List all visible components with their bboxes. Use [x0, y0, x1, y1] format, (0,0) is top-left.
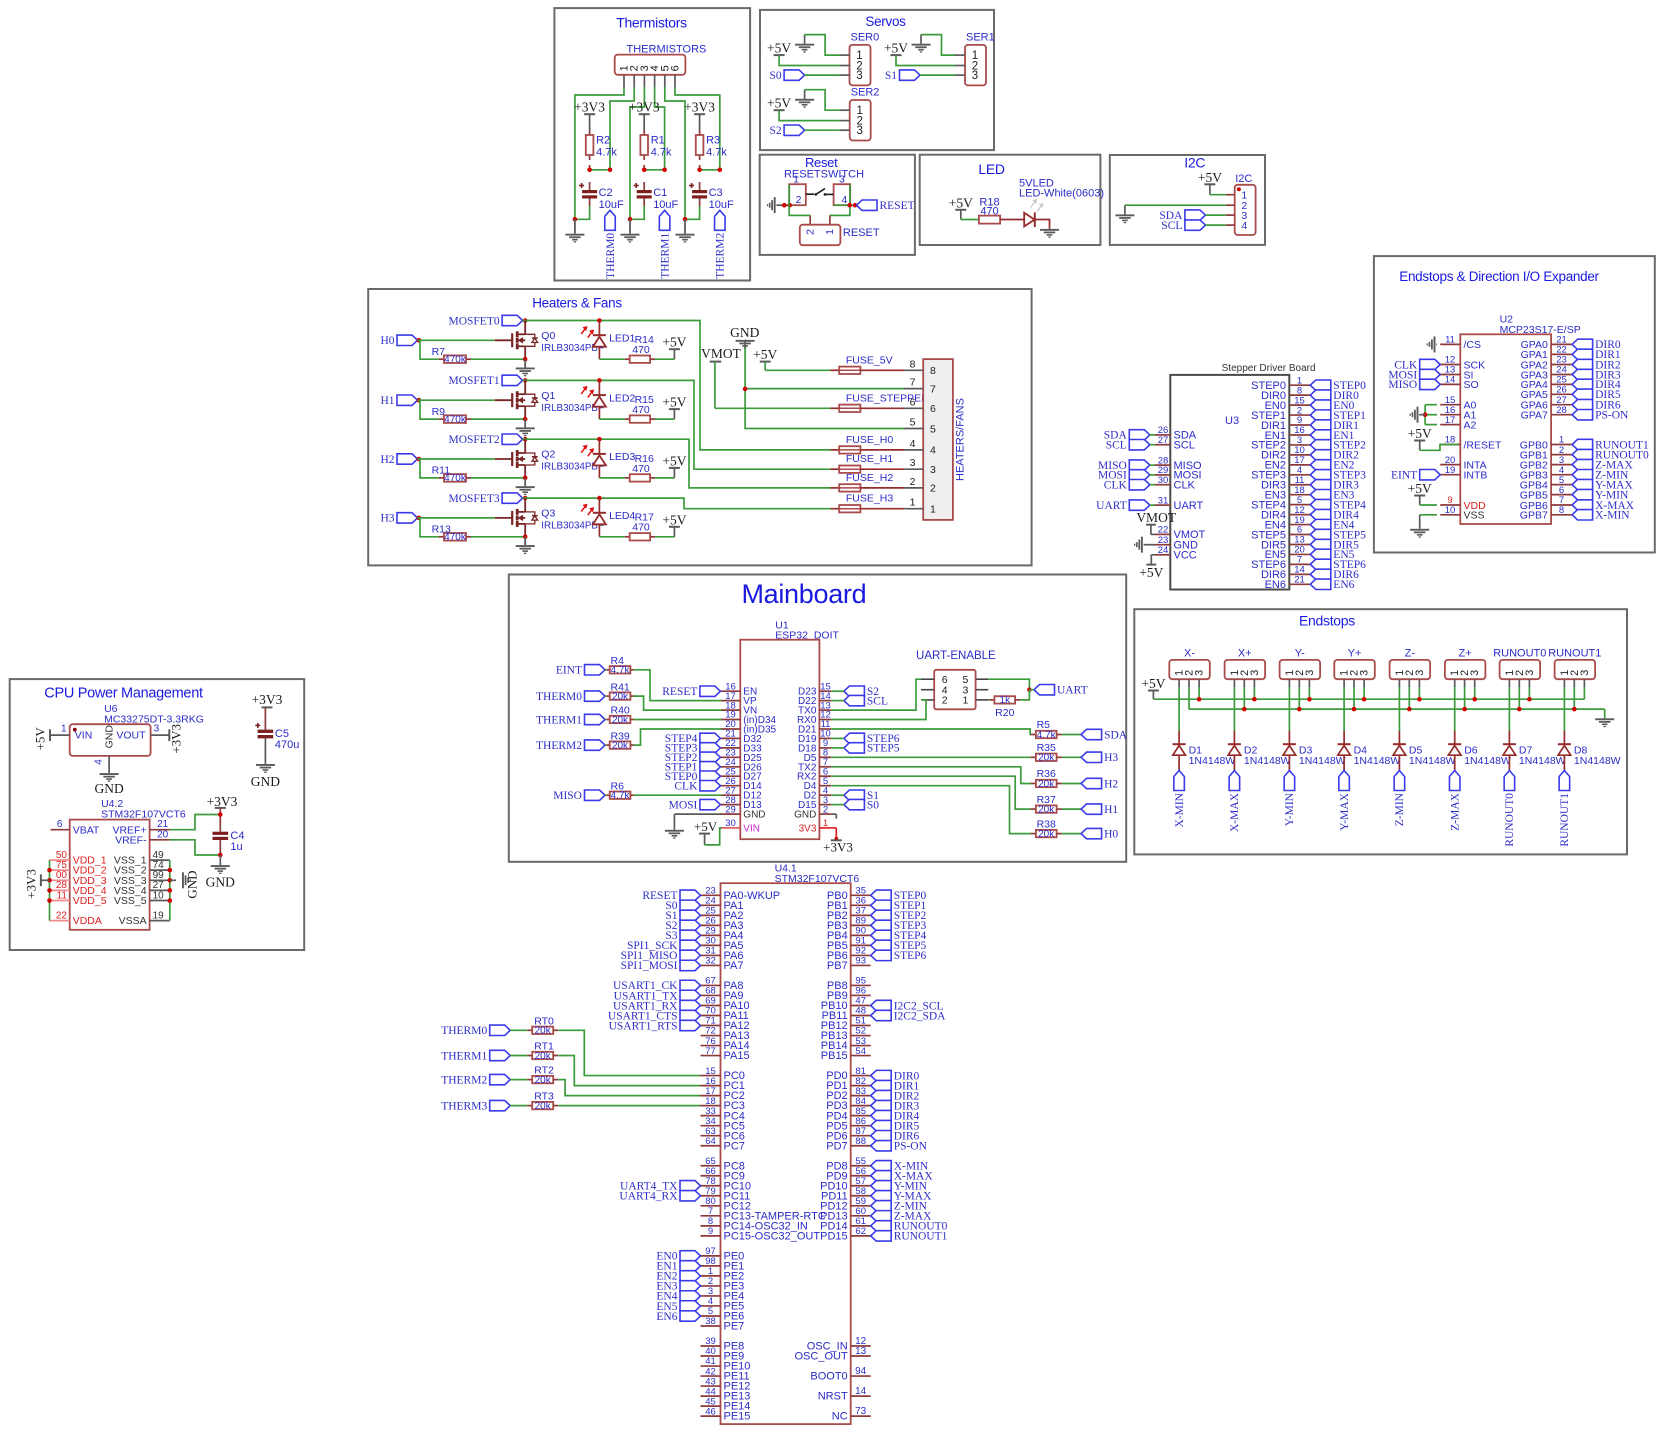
pin 4 D2 U1 — [804, 785, 832, 801]
svg-text:8: 8 — [930, 365, 936, 377]
power +5V VIN U1 — [694, 819, 718, 845]
svg-text:10: 10 — [153, 890, 165, 901]
hier label X-MAX endstop — [1229, 771, 1241, 832]
pin 79 PC11 U4.1 — [701, 1186, 751, 1202]
svg-text:1: 1 — [962, 695, 968, 707]
svg-text:14: 14 — [1445, 375, 1456, 386]
led LED1 — [581, 321, 635, 360]
hier label MOSFET1 — [448, 375, 522, 387]
junction H2 — [417, 457, 422, 462]
node mid group 2 — [642, 168, 667, 173]
svg-text:SCL: SCL — [867, 695, 888, 707]
ic U4.2 body — [70, 820, 150, 930]
svg-text:EINT: EINT — [556, 665, 582, 677]
junction VDD rail 870.1 — [47, 868, 52, 873]
hier label EN2 U3 — [1310, 460, 1354, 472]
hier label STEP3 U3 — [1310, 470, 1366, 482]
svg-text:3: 3 — [1579, 670, 1591, 676]
wire VREF+ to +3V3 — [170, 815, 221, 830]
connector THERMISTORS — [615, 55, 686, 87]
resistor R39 THERM2 — [536, 730, 634, 752]
fuse FUSE_5V — [831, 354, 905, 374]
svg-text:3: 3 — [1304, 670, 1316, 676]
wire THERM2 to RT2 — [510, 1079, 527, 1081]
svg-text:STEP5: STEP5 — [867, 743, 900, 755]
component UART-ENABLE — [921, 670, 988, 710]
connector HEATERS/FANS — [904, 358, 967, 520]
hier label X-MAX U2 — [1572, 500, 1635, 512]
svg-text:GND: GND — [743, 810, 765, 821]
svg-text:HEATERS/FANS: HEATERS/FANS — [955, 398, 967, 481]
svg-text:Thermistors: Thermistors — [616, 15, 687, 31]
wire X+ pin1 to diode — [1233, 687, 1235, 744]
connector Y+ — [1334, 647, 1375, 687]
junction VDD rail 900.5 — [47, 898, 52, 903]
pin 3 GPB2 U2 — [1520, 455, 1572, 472]
svg-text:Q3: Q3 — [541, 508, 555, 520]
svg-text:22: 22 — [56, 910, 68, 921]
connector X+ — [1225, 647, 1266, 687]
wire pin3 THERMISTORS — [630, 87, 644, 219]
wire S1 to pin3 — [920, 74, 955, 76]
hier label DIR1 U4.1 — [871, 1080, 920, 1092]
capacitor C2 — [579, 182, 624, 211]
svg-text:SCL: SCL — [1106, 439, 1127, 451]
resistor R15 — [599, 394, 655, 423]
svg-text:+5V: +5V — [694, 819, 718, 834]
pin 8 GPB7 U2 — [1520, 505, 1572, 522]
svg-text:+5V: +5V — [949, 195, 973, 210]
pin GND U6 — [94, 725, 116, 773]
hier label DIR5 U2 — [1572, 389, 1621, 401]
pin 17 PC2 U4.1 — [701, 1086, 745, 1102]
transistor Q3 — [495, 498, 604, 537]
hier label I2C2_SDA U4.1 — [871, 1010, 946, 1022]
resistor R37 H1 — [1031, 794, 1119, 816]
wire MOSFET1 net to fuse — [523, 380, 831, 469]
wire RUNOUT1 pin3 to 5V bus — [1583, 687, 1585, 699]
svg-text:STEP6: STEP6 — [894, 950, 927, 962]
diode D5 — [1393, 744, 1456, 770]
wire X+ pin3 to 5V bus — [1253, 687, 1255, 699]
pin 70 PA11 U4.1 — [701, 1006, 749, 1022]
svg-text:USART1_RTS: USART1_RTS — [609, 1020, 678, 1032]
svg-text:+5V: +5V — [1198, 170, 1222, 185]
wire +5V to pin2 SER2 — [779, 110, 840, 120]
resistor R35 H3 — [1031, 742, 1119, 764]
svg-text:RUNOUT1: RUNOUT1 — [1548, 647, 1601, 659]
svg-text:X+: X+ — [1238, 647, 1252, 659]
led LED4 — [581, 498, 635, 537]
pin 60 PD13 U4.1 — [820, 1206, 871, 1222]
pin 25 D27 U1 — [720, 766, 762, 782]
pin 96 PB9 U4.1 — [827, 986, 871, 1002]
pin 23 GND U3 — [1155, 535, 1198, 552]
wire right to reset pin1 — [830, 185, 850, 225]
junction source node 3 — [523, 535, 528, 540]
connector SER2 — [840, 87, 880, 141]
svg-text:PD7: PD7 — [826, 1140, 847, 1152]
pin 11 DIR3 U3 — [1261, 475, 1310, 492]
hier label S1 — [885, 70, 920, 82]
power +5V i2c — [1198, 170, 1222, 195]
svg-text:FUSE_H1: FUSE_H1 — [846, 453, 893, 465]
svg-text:CLK: CLK — [1174, 480, 1196, 492]
resistor RT1 — [527, 1041, 558, 1062]
wire X- pin2 to gnd bus — [1188, 687, 1190, 709]
svg-text:26: 26 — [1556, 385, 1567, 396]
pin 29 MOSI U3 — [1155, 465, 1202, 482]
pin 63 PC6 U4.1 — [701, 1126, 745, 1142]
pin 30 CLK U3 — [1155, 475, 1196, 492]
wire RUNOUT1 pin2 to gnd bus — [1573, 687, 1575, 709]
wire S2 to pin3 — [805, 129, 840, 131]
pin 13 TX0 U1 — [798, 700, 831, 716]
svg-text:4.7k: 4.7k — [1037, 730, 1057, 741]
pin 49 VSS_1 U4.2 — [114, 850, 170, 867]
svg-text:GPB7: GPB7 — [1520, 510, 1548, 522]
wire H1 to R pulldown — [420, 400, 439, 419]
junction source node 1 — [523, 417, 528, 422]
pin 9 DIR1 U3 — [1261, 415, 1310, 432]
wire Y+ pin2 to gnd bus — [1353, 687, 1355, 709]
pin 39 PE8 U4.1 — [701, 1336, 745, 1352]
wire R to source node 3 — [471, 536, 525, 538]
hier label THERM1 — [659, 210, 671, 278]
svg-text:RESET: RESET — [843, 227, 880, 239]
svg-text:H1: H1 — [1104, 804, 1118, 816]
pin 1 STEP0 U3 — [1251, 375, 1310, 392]
svg-text:+5V: +5V — [1139, 565, 1163, 580]
component RESET — [800, 225, 880, 246]
svg-text:20k: 20k — [1038, 753, 1055, 764]
svg-text:VDDA: VDDA — [73, 915, 102, 927]
pin 16 PC1 U4.1 — [701, 1076, 745, 1092]
power +3V3 thermistor group 1 — [574, 100, 605, 131]
pin 6 STEP5 U3 — [1251, 525, 1310, 542]
junction Y- pin3 bus1 — [1307, 697, 1312, 702]
wire VSS rail — [169, 860, 171, 921]
diode D3 — [1283, 744, 1346, 770]
pin 18 VN U1 — [720, 700, 757, 716]
connector X- — [1169, 647, 1210, 687]
svg-text:SER0: SER0 — [851, 31, 880, 43]
hier label RESET U4.1 — [642, 890, 700, 902]
svg-text:CLK: CLK — [674, 780, 698, 792]
capacitor C3 — [689, 182, 734, 211]
svg-text:INTB: INTB — [1464, 470, 1488, 482]
svg-text:THERM1: THERM1 — [536, 714, 582, 726]
wire RT1 to PC1 — [558, 1056, 700, 1086]
wire MISO U3 — [1150, 464, 1155, 466]
pin 3 PE4 U4.1 — [701, 1286, 745, 1302]
hier label S3 U4.1 — [665, 930, 700, 942]
pin 20 INTA U2 — [1440, 455, 1486, 472]
svg-text:4: 4 — [94, 759, 105, 765]
svg-text:+5V: +5V — [1141, 676, 1165, 691]
svg-text:28: 28 — [1556, 405, 1567, 416]
svg-text:7: 7 — [910, 377, 916, 389]
svg-text:+5V: +5V — [767, 41, 791, 56]
wire Z- pin1 to diode — [1398, 687, 1400, 744]
pin number 3 — [839, 174, 845, 186]
power VMOT heaters — [701, 346, 742, 409]
ic U4.2 ref — [101, 798, 186, 821]
hier label STEP3 U4.1 — [871, 920, 927, 932]
pin 6 RX2 U1 — [797, 766, 831, 782]
svg-text:+5V: +5V — [884, 41, 908, 56]
hier label STEP1 U4.1 — [871, 900, 927, 912]
label 5VLED — [1019, 178, 1054, 190]
svg-text:PA15: PA15 — [724, 1050, 750, 1062]
wire S0 to pin3 — [805, 74, 840, 76]
pin 5 D4 U1 — [804, 776, 832, 792]
power +5V led — [949, 195, 973, 219]
svg-text:1k: 1k — [1000, 695, 1012, 706]
pin 26 GPA5 U2 — [1521, 385, 1573, 402]
pin 1 GPB0 U2 — [1520, 435, 1572, 452]
wire cap to gnd node group 2 — [628, 206, 645, 222]
pin 21 EN6 U3 — [1265, 575, 1311, 592]
wire pin1 THERMISTORS — [575, 87, 624, 219]
wire R to +5V 3 — [655, 536, 674, 538]
svg-text:PB15: PB15 — [821, 1050, 848, 1062]
junction Z+ pin3 bus1 — [1472, 697, 1477, 702]
junction MOSFET2 net — [523, 437, 528, 442]
hier label DIR5 U3 — [1310, 539, 1359, 551]
svg-text:31: 31 — [1158, 495, 1169, 506]
svg-text:2: 2 — [942, 695, 948, 707]
hier label SCL U3 — [1106, 439, 1150, 451]
svg-text:I2C2_SDA: I2C2_SDA — [894, 1010, 946, 1022]
wire pin6 THERMISTORS — [675, 87, 720, 170]
wire pin5 THERMISTORS — [665, 87, 685, 219]
hier label X-MIN U2 — [1572, 510, 1630, 522]
svg-text:LED1: LED1 — [609, 332, 635, 344]
hier label RUNOUT1 endstop — [1559, 771, 1571, 847]
wire X- pin1 to diode — [1178, 687, 1180, 744]
wire R to source node 1 — [471, 418, 525, 420]
svg-text:62: 62 — [855, 1226, 866, 1237]
pin 66 PC9 U4.1 — [701, 1166, 745, 1182]
pin 7 TX2 U1 — [798, 757, 831, 773]
svg-text:64: 64 — [705, 1136, 716, 1147]
svg-text:1: 1 — [824, 229, 836, 235]
svg-text:GND: GND — [104, 725, 116, 749]
hier label S2 U4.1 — [665, 920, 700, 932]
wire U1 right GND — [831, 814, 836, 818]
hier label EN0 U3 — [1310, 400, 1354, 412]
svg-text:PA7: PA7 — [724, 960, 744, 972]
svg-text:30: 30 — [725, 818, 736, 829]
label RESETSWITCH — [784, 169, 864, 181]
junction Z- pin3 bus1 — [1417, 697, 1422, 702]
pin 3 STEP2 U3 — [1251, 435, 1310, 452]
wire Z+ pin2 to gnd bus — [1464, 687, 1466, 709]
wire H0 to R pulldown — [420, 340, 439, 359]
svg-text:3: 3 — [1414, 670, 1426, 676]
svg-text:VMOT: VMOT — [1136, 510, 1177, 525]
junction Z- pin2 bus2 — [1407, 707, 1412, 712]
pin 5 GPB4 U2 — [1520, 475, 1572, 492]
connector RUNOUT0 — [1493, 647, 1546, 687]
svg-text:7: 7 — [930, 383, 936, 395]
pin 21 VREF+ U4.2 — [112, 819, 169, 836]
pin 12 OSC_IN U4.1 — [807, 1336, 871, 1353]
hier label USART1_RX U4.1 — [613, 1000, 701, 1012]
svg-text:THERM0: THERM0 — [441, 1025, 487, 1037]
hier label S0 — [769, 70, 804, 82]
pin 73 NC U4.1 — [832, 1406, 871, 1423]
junction dots left — [782, 203, 792, 208]
pin 82 PD1 U4.1 — [826, 1076, 870, 1092]
svg-text:4: 4 — [910, 438, 916, 450]
wire RX2 to R37 — [831, 776, 1030, 809]
svg-text:UART: UART — [1057, 684, 1088, 696]
hier label SCL — [1161, 220, 1205, 232]
wire Z- pin2 to gnd bus — [1408, 687, 1410, 709]
wire gnd to pin7 — [745, 388, 904, 390]
pin 65 PC8 U4.1 — [701, 1156, 745, 1172]
wire TX0 to pin6 — [831, 679, 921, 710]
connector SER0 — [840, 31, 880, 85]
hier label DIR4 U4.1 — [871, 1110, 920, 1122]
junction VSS rail 870.1 — [168, 868, 173, 873]
hier label SPI1_SCK U4.1 — [627, 940, 701, 952]
wire R to node group 1 — [589, 165, 591, 170]
svg-text:+5V: +5V — [753, 347, 777, 362]
junction RUNOUT1 pin2 bus2 — [1572, 707, 1577, 712]
switch pin box left — [789, 184, 806, 205]
pin 26 D14 U1 — [720, 776, 762, 792]
pin 31 PA6 U4.1 — [701, 946, 744, 962]
hier label EN6 U3 — [1310, 579, 1354, 591]
ground C4 — [206, 855, 235, 890]
svg-text:8: 8 — [1559, 505, 1564, 516]
svg-text:+5V: +5V — [662, 395, 686, 410]
pin 42 PE11 U4.1 — [701, 1366, 750, 1382]
ground U4.2 — [170, 870, 200, 898]
wire THERM0 to RT0 — [510, 1029, 527, 1031]
svg-text:32: 32 — [705, 956, 716, 967]
ic U4.1 ref — [775, 863, 860, 885]
svg-text:73: 73 — [855, 1406, 867, 1417]
power +5V row 0 — [662, 335, 686, 360]
hier label STEP4 U3 — [1310, 499, 1366, 511]
ic U4.1 body — [721, 883, 851, 1424]
hier label STEP0 U1 — [665, 771, 721, 783]
svg-text:2: 2 — [910, 476, 916, 488]
svg-text:Y+: Y+ — [1348, 647, 1362, 659]
svg-text:3: 3 — [839, 174, 845, 186]
wire cap to gnd node group 3 — [683, 206, 700, 222]
junction MOSFET0 net — [523, 318, 528, 323]
svg-text:470: 470 — [632, 404, 650, 416]
wire R20 to UART — [1020, 690, 1029, 700]
svg-text:X-MIN: X-MIN — [1595, 510, 1630, 522]
svg-text:NRST: NRST — [818, 1391, 848, 1403]
pin 75 VDD_2 U4.2 — [50, 860, 107, 877]
pin 23 D25 U1 — [720, 748, 762, 764]
hier label RUNOUT1 U4.1 — [871, 1231, 948, 1243]
svg-text:SDA: SDA — [1104, 729, 1128, 741]
ground /CS U2 — [1427, 336, 1437, 352]
svg-text:GND: GND — [251, 774, 280, 789]
ground A1 U2 — [1410, 407, 1426, 423]
hier label SCL U1 — [831, 695, 888, 707]
pin 24 GPA3 U2 — [1521, 365, 1573, 382]
svg-text:PE15: PE15 — [724, 1411, 751, 1423]
pin 67 PA8 U4.1 — [701, 976, 744, 992]
junction VSS rail 880.3 — [168, 878, 173, 883]
wire H3 to R pulldown — [420, 518, 439, 537]
svg-text:R7: R7 — [432, 346, 446, 358]
svg-text:+5V: +5V — [662, 512, 686, 527]
svg-text:+3V3: +3V3 — [252, 692, 283, 707]
wire MOSFET3 net to fuse — [523, 498, 831, 509]
hier label USART1_TX U4.1 — [614, 990, 701, 1002]
svg-text:MISO: MISO — [553, 790, 582, 802]
wire +5V bus — [1153, 698, 1584, 700]
svg-text:13: 13 — [855, 1346, 867, 1357]
svg-text:S0: S0 — [867, 799, 879, 811]
switch pin box right — [834, 184, 851, 205]
hier label SPI1_MOSI U4.1 — [621, 960, 701, 972]
resistor R9 — [432, 406, 471, 426]
junction X- pin3 bus1 — [1197, 697, 1202, 702]
pin 4 PE5 U4.1 — [701, 1296, 745, 1312]
capacitor C5 — [255, 723, 299, 764]
svg-text:19: 19 — [1445, 465, 1456, 476]
pin 61 PD14 U4.1 — [820, 1216, 871, 1232]
fuse FUSE_H3 — [831, 493, 905, 513]
svg-text:R1: R1 — [651, 135, 665, 147]
svg-text:LED: LED — [978, 161, 1005, 177]
hier label Y-MAX U4.1 — [871, 1191, 932, 1203]
hier label STEP5 U4.1 — [871, 940, 927, 952]
svg-text:470k: 470k — [444, 414, 467, 425]
resistor R4 EINT — [556, 655, 634, 677]
wire MOSFET0 net to fuse — [523, 321, 831, 450]
resistor RT2 — [527, 1065, 558, 1086]
pin 36 PB1 U4.1 — [827, 896, 871, 912]
svg-text:2: 2 — [796, 194, 802, 206]
resistor RT0 — [527, 1015, 558, 1036]
junction A1 rail — [1423, 412, 1428, 417]
hier label STEP4 U4.1 — [871, 930, 927, 942]
hier label MISO U2 — [1388, 379, 1440, 391]
svg-text:+3V3: +3V3 — [207, 794, 238, 809]
power +3V3 C4 — [207, 794, 238, 832]
pin 91 PB5 U4.1 — [827, 936, 871, 952]
power +5V U6 — [33, 727, 51, 751]
section box Reset — [760, 155, 915, 255]
pin 22 D33 U1 — [720, 738, 762, 754]
hier label STEP0 U4.1 — [871, 890, 927, 902]
wire RX0 to pin2 — [831, 700, 926, 720]
svg-text:THERM2: THERM2 — [715, 233, 727, 279]
ground Q0 — [516, 359, 535, 376]
power +5V row 2 — [662, 453, 686, 478]
resistor R16 — [599, 453, 655, 482]
wire gnd to pin2 — [1125, 204, 1226, 206]
svg-text:H2: H2 — [1104, 778, 1118, 790]
svg-text:Z-MIN: Z-MIN — [1394, 792, 1406, 826]
wire RT3 to PC3 — [558, 1105, 700, 1107]
svg-text:FUSE_H2: FUSE_H2 — [846, 472, 893, 484]
wire D4 to R38 — [831, 786, 1030, 834]
hier label Z-MIN U2 — [1572, 469, 1629, 481]
